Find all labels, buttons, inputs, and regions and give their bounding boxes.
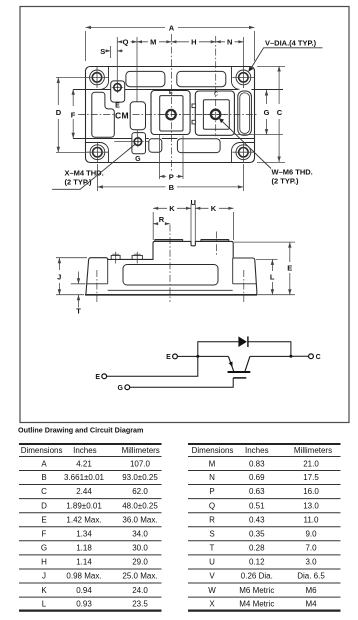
terminal C centerline: [215, 36, 217, 137]
wire to terminal C: [291, 355, 309, 357]
aux terminal E pin: [112, 82, 123, 93]
dimension P: [160, 135, 184, 179]
svg-text:A: A: [41, 459, 47, 468]
circuit: terminal C (collector): [309, 354, 321, 361]
K U K dimension: [153, 204, 233, 241]
main terminal C screw: [211, 110, 220, 119]
svg-text:0.94: 0.94: [76, 586, 92, 595]
main terminal C (right) outer pad: [195, 91, 234, 135]
dimension A line: [86, 27, 255, 61]
svg-text:24.0: 24.0: [132, 586, 148, 595]
svg-text:0.98 Max.: 0.98 Max.: [66, 572, 101, 581]
left table row K: [41, 586, 148, 595]
terminal E screw crosshair: [160, 114, 183, 116]
svg-text:F: F: [42, 530, 47, 539]
svg-text:J: J: [42, 572, 46, 581]
svg-text:0.26 Dia.: 0.26 Dia.: [241, 572, 273, 581]
svg-text:E: E: [95, 374, 100, 381]
right table bottom border: [188, 609, 341, 611]
svg-text:P: P: [209, 487, 214, 496]
bottom slot: [177, 139, 220, 153]
terminal strip left (side view): [155, 240, 183, 242]
label E (side dimension): [287, 263, 292, 272]
svg-text:V: V: [209, 572, 215, 581]
svg-text:Millimeters: Millimeters: [294, 446, 332, 455]
svg-text:H: H: [41, 558, 47, 567]
right table row Q: [209, 501, 319, 510]
title: Outline Drawing and Circuit Diagram: [18, 425, 143, 434]
label E (main terminal): [169, 90, 173, 96]
svg-text:U: U: [190, 198, 195, 207]
label P: [169, 172, 174, 181]
svg-text:G: G: [118, 385, 124, 392]
svg-text:Q: Q: [123, 38, 129, 47]
svg-text:0.35: 0.35: [249, 530, 265, 539]
labels Q M H N: [123, 38, 233, 47]
svg-text:D: D: [41, 501, 47, 510]
svg-text:11.0: 11.0: [304, 515, 320, 524]
horizontal centerline: [78, 114, 258, 116]
svg-text:1.34: 1.34: [76, 530, 92, 539]
right table top border: [188, 443, 341, 445]
left table bottom border: [19, 609, 162, 611]
drawing frame border: [20, 7, 349, 423]
mounting hole bottom-right: [232, 142, 254, 163]
svg-text:F: F: [71, 111, 76, 120]
svg-text:Outline Drawing and Circuit Di: Outline Drawing and Circuit Diagram: [18, 425, 143, 434]
right table row T: [210, 544, 318, 553]
right table row X: [209, 600, 317, 609]
wire diode branch up: [198, 342, 239, 357]
right boss inner edge: [233, 258, 256, 284]
right table row U: [209, 558, 317, 567]
collector side pad: [238, 91, 252, 135]
svg-text:Millimeters: Millimeters: [122, 446, 160, 455]
label recess (side view): [123, 265, 218, 286]
svg-text:CM: CM: [115, 110, 129, 120]
diode D1: [238, 336, 248, 347]
svg-text:M4: M4: [305, 600, 317, 609]
aux terminal E pad: [111, 81, 125, 102]
svg-text:4.21: 4.21: [76, 459, 92, 468]
svg-text:H: H: [191, 38, 196, 47]
svg-text:M: M: [209, 459, 216, 468]
svg-text:1.89±0.01: 1.89±0.01: [66, 501, 102, 510]
svg-text:M6 Metric: M6 Metric: [239, 586, 274, 595]
corner boss top-right: [232, 67, 240, 90]
dimension G right: [234, 90, 283, 135]
svg-text:R: R: [209, 515, 215, 524]
svg-text:B: B: [169, 183, 175, 192]
svg-text:1.18: 1.18: [76, 544, 92, 553]
svg-text:0.93: 0.93: [76, 600, 92, 609]
left boss inner edge: [87, 259, 108, 283]
svg-text:107.0: 107.0: [130, 459, 151, 468]
gate terminal G pad: [132, 133, 146, 154]
svg-text:16.0: 16.0: [303, 487, 319, 496]
svg-text:Q: Q: [209, 501, 215, 510]
svg-text:E: E: [169, 90, 173, 96]
svg-text:29.0: 29.0: [132, 558, 148, 567]
case bottom line: [108, 289, 233, 291]
svg-text:0.43: 0.43: [249, 515, 265, 524]
V-DIA label and leader: [265, 38, 317, 47]
svg-text:X–M4 THD.: X–M4 THD.: [65, 168, 104, 177]
svg-text:34.0: 34.0: [132, 530, 148, 539]
svg-text:E: E: [41, 515, 46, 524]
svg-text:7.0: 7.0: [305, 544, 317, 553]
mounting hole top-left: [86, 67, 108, 88]
R dimension: [153, 223, 170, 225]
right table row R: [209, 515, 319, 524]
svg-text:J: J: [57, 273, 61, 282]
IGBT Q1 gate bar: [233, 377, 246, 379]
label F: [71, 111, 76, 120]
svg-text:X: X: [209, 600, 215, 609]
dimension S: [105, 50, 123, 52]
right table row W: [208, 586, 317, 595]
W-M6 leader: [221, 120, 272, 169]
wire collector diagonal to node: [250, 355, 291, 357]
dimension D line: [56, 77, 87, 152]
left table row H: [41, 558, 148, 567]
svg-text:P: P: [169, 172, 174, 181]
svg-text:T: T: [76, 307, 81, 316]
label T: [76, 307, 81, 316]
svg-text:0.69: 0.69: [249, 473, 265, 482]
svg-text:Dimensions: Dimensions: [21, 446, 63, 455]
wire gate lead: [130, 378, 234, 387]
main terminal E (left) outer pad: [151, 91, 190, 135]
control pin tab right (side view): [132, 252, 142, 264]
svg-text:0.12: 0.12: [249, 558, 265, 567]
circuit: terminal E (emitter top): [166, 354, 177, 361]
node junction at collector: [289, 355, 292, 358]
left table row C: [41, 487, 148, 496]
svg-text:A: A: [169, 23, 175, 32]
svg-text:36.0 Max.: 36.0 Max.: [122, 515, 157, 524]
svg-text:K: K: [41, 586, 47, 595]
svg-text:E: E: [166, 354, 171, 361]
dimension row Q M H N: [117, 41, 243, 43]
gate terminal G pin: [114, 136, 149, 147]
svg-text:W: W: [208, 586, 216, 595]
left cutout: [92, 92, 115, 137]
corner boss top-left: [101, 67, 109, 90]
svg-text:3.0: 3.0: [305, 558, 317, 567]
svg-text:N: N: [227, 38, 232, 47]
top slot left: [126, 71, 165, 86]
svg-text:D: D: [56, 108, 62, 117]
left table row L: [42, 600, 149, 609]
G pad upper feature: [130, 102, 145, 130]
label C (main terminal): [214, 92, 218, 98]
svg-text:Dia. 6.5: Dia. 6.5: [297, 572, 325, 581]
svg-text:N: N: [209, 473, 215, 482]
module outline (top view): [86, 67, 255, 163]
circuit: terminal E (emitter sense): [95, 374, 106, 381]
label E (aux pin): [115, 103, 120, 110]
T dimension: [71, 272, 86, 308]
top slot right: [177, 71, 226, 86]
clip squares between terminals: [192, 104, 196, 124]
svg-text:13.0: 13.0: [303, 501, 319, 510]
svg-text:G: G: [264, 108, 270, 117]
svg-text:1.42 Max.: 1.42 Max.: [66, 515, 101, 524]
svg-text:L: L: [270, 272, 275, 281]
main terminal E screw: [166, 110, 175, 119]
svg-text:E: E: [287, 263, 292, 272]
left table row J: [42, 572, 158, 581]
control pin tab left (side view): [111, 252, 120, 264]
svg-text:0.28: 0.28: [249, 544, 265, 553]
svg-text:L: L: [42, 600, 47, 609]
mounting hole centerline left (side view): [96, 270, 98, 302]
label G (gate pin): [135, 156, 141, 163]
svg-text:62.0: 62.0: [132, 487, 148, 496]
svg-text:48.0±0.25: 48.0±0.25: [122, 501, 158, 510]
svg-text:30.0: 30.0: [132, 544, 148, 553]
wire E to IGBT emitter: [177, 355, 228, 357]
left table header row: [21, 446, 160, 455]
svg-text:G: G: [135, 156, 141, 163]
extension lines for Q M H N S: [110, 37, 243, 137]
svg-text:W–M6 THD.: W–M6 THD.: [272, 167, 313, 176]
svg-text:23.5: 23.5: [132, 600, 148, 609]
svg-text:0.51: 0.51: [249, 501, 265, 510]
labels K U K: [169, 198, 217, 213]
svg-text:C: C: [316, 354, 321, 361]
svg-text:9.0: 9.0: [305, 530, 317, 539]
svg-text:17.5: 17.5: [303, 473, 319, 482]
marking text CM: [115, 110, 129, 120]
right table row N: [209, 473, 319, 482]
label S: [100, 47, 105, 56]
wire emitter sense to node: [107, 358, 198, 376]
mounting hole bottom-left: [86, 142, 108, 163]
bottom strip edge: [73, 138, 255, 140]
top raised strip edge: [73, 89, 283, 91]
IGBT Q1 collector diagonal: [245, 356, 250, 371]
IGBT Q1 body bar: [228, 371, 251, 373]
E dimension (side view): [234, 242, 295, 295]
dimension C right: [257, 66, 285, 163]
svg-text:Dimensions: Dimensions: [192, 446, 234, 455]
right table row M: [209, 459, 320, 468]
right table row S: [209, 530, 317, 539]
svg-text:M: M: [150, 38, 156, 47]
left table row F: [42, 530, 149, 539]
svg-text:C: C: [41, 487, 47, 496]
dimension B: [97, 164, 243, 191]
pad right of G: [149, 139, 162, 152]
side view centerline (module/terminal E): [169, 225, 171, 303]
left table row E: [41, 515, 157, 524]
W-M6 THD label: [272, 167, 313, 185]
svg-text:Inches: Inches: [245, 446, 269, 455]
X-M4 THD label: [65, 168, 104, 186]
svg-text:U: U: [209, 558, 215, 567]
label D: [56, 108, 62, 117]
label C (dimension): [277, 108, 283, 117]
vertical centerline: [170, 34, 172, 173]
svg-text:3.661±0.01: 3.661±0.01: [64, 473, 105, 482]
mounting hole centerline right (side view): [243, 270, 245, 302]
svg-text:V–DIA.(4 TYP.): V–DIA.(4 TYP.): [265, 38, 317, 47]
circuit: terminal G (gate): [118, 385, 130, 392]
side view body outline: [86, 241, 257, 294]
node junction at emitter: [196, 355, 199, 358]
dimension F line: [72, 89, 74, 138]
left table row D: [41, 501, 158, 510]
right table row V: [209, 572, 325, 581]
svg-text:R: R: [159, 215, 165, 224]
svg-text:0.63: 0.63: [249, 487, 265, 496]
IGBT Q1 emitter diagonal with arrow: [228, 356, 234, 371]
label L: [270, 272, 275, 281]
terminal strip right (side view): [201, 240, 229, 242]
svg-text:21.0: 21.0: [303, 459, 319, 468]
svg-text:(2 TYP.): (2 TYP.): [65, 177, 92, 186]
baseplate bottom thick edge: [85, 294, 257, 296]
terminal C screw crosshair: [204, 113, 228, 115]
svg-text:E: E: [115, 103, 120, 110]
svg-text:2.44: 2.44: [76, 487, 92, 496]
label A: [169, 23, 175, 32]
svg-text:S: S: [100, 47, 105, 56]
svg-text:Inches: Inches: [73, 446, 97, 455]
svg-text:25.0 Max.: 25.0 Max.: [122, 572, 157, 581]
corner boss bottom-right: [232, 143, 255, 163]
right table header row: [192, 446, 333, 455]
svg-text:0.83: 0.83: [249, 459, 265, 468]
label R: [159, 215, 165, 224]
wire diode to collector node: [248, 342, 291, 357]
left table top border: [19, 443, 162, 445]
corner boss bottom-left: [86, 143, 109, 163]
side view centerline terminal C: [216, 232, 218, 257]
left table row A: [41, 459, 150, 468]
svg-text:1.14: 1.14: [76, 558, 92, 567]
J dimension: [56, 258, 87, 295]
label G (dimension): [264, 108, 270, 117]
left table row G: [41, 544, 148, 553]
svg-text:C: C: [277, 108, 283, 117]
svg-text:(2 TYP.): (2 TYP.): [272, 176, 299, 185]
svg-text:K: K: [169, 204, 175, 213]
mounting hole top-right: [232, 67, 254, 88]
svg-text:K: K: [211, 204, 217, 213]
label J: [57, 273, 61, 282]
right table row P: [209, 487, 319, 496]
svg-text:T: T: [210, 544, 215, 553]
label B: [169, 183, 175, 192]
svg-text:93.0±0.25: 93.0±0.25: [122, 473, 158, 482]
svg-text:B: B: [41, 473, 46, 482]
svg-text:S: S: [209, 530, 214, 539]
X-M4 leader: [52, 144, 135, 189]
left table row B: [41, 473, 158, 482]
svg-text:M6: M6: [305, 586, 317, 595]
side view main top surface line: [108, 258, 153, 260]
L dimension: [256, 259, 278, 294]
svg-text:M4 Metric: M4 Metric: [239, 600, 274, 609]
svg-text:G: G: [41, 544, 47, 553]
